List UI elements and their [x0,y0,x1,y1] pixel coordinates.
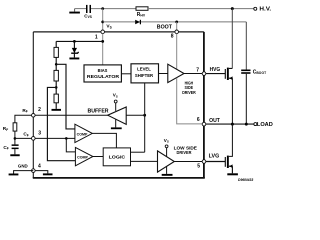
comparator COMP1 [75,124,92,142]
svg-text:VS: VS [164,138,169,144]
wire logic to low side driver [131,160,158,162]
node junction zener [73,40,76,43]
wire high side driver to pin 7 [184,73,202,75]
svg-text:LVG: LVG [209,154,220,160]
svg-text:REGULATOR: REGULATOR [87,74,120,79]
svg-text:4: 4 [38,163,41,169]
wire level shifter to high side driver [159,73,168,75]
svg-text:HVG: HVG [210,67,221,73]
svg-text:7: 7 [196,67,199,73]
node junction CVS/Vs [101,7,104,10]
wire boot rail [103,21,247,23]
svg-text:CF: CF [3,145,8,151]
capacitor CF [3,144,18,150]
svg-text:DRIVER: DRIVER [177,150,193,155]
pin 5 LVG [197,154,219,170]
svg-text:CVS: CVS [84,13,92,19]
capacitor CVS [84,5,92,19]
wire H.V. down to Q1 drain [231,9,233,69]
svg-text:LOAD: LOAD [257,122,273,128]
pin 8 BOOT [171,30,179,39]
wire R2 to tap2 [55,81,57,94]
svg-text:COMP: COMP [77,133,88,137]
node tap2 [55,86,58,89]
wire pin3 to comparators [35,137,75,139]
wire tap1 to comparator COMP1 input [56,64,75,129]
svg-text:BUFFER: BUFFER [88,109,109,115]
wire high side driver return to pin 6 [177,78,202,124]
svg-text:RF: RF [3,126,8,132]
terminal H.V. [254,7,272,13]
node junction pin3 branch [65,137,68,140]
transistor Q1 high side MOSFET [225,68,232,80]
ground pin4 right [43,173,53,175]
capacitor CBOOT [241,69,266,75]
wire pin3 branch to COMP2 [66,138,75,152]
wire pin2 to external RF [15,115,32,123]
wire Vs rail top [91,8,136,10]
svg-text:1: 1 [95,34,98,40]
wire R3 to ground [55,103,57,109]
resistor RHV [136,7,148,18]
transistor Q2 low side MOSFET [225,156,232,168]
svg-text:BIAS: BIAS [98,68,108,73]
wire Q1 source to OUT rail [231,78,233,124]
node junction boot rail [101,21,104,24]
wire R1 to tap1 [55,57,57,70]
svg-text:H.V.: H.V. [259,7,272,13]
svg-text:RHV: RHV [137,12,146,18]
node junction boot pin [175,21,178,24]
wire pin1 to bias regulator [102,34,104,65]
ground pin4 left [9,174,19,176]
wire boot junction to pin 8 [176,22,178,30]
wire OUT rail [206,123,254,125]
svg-text:GND: GND [18,163,28,168]
wire Q2 source to ground [231,166,233,173]
amplifier high side driver [168,64,184,82]
svg-text:CBOOT: CBOOT [253,69,267,75]
wire COMP2 to logic [93,156,103,158]
wire pin8 to high side driver supply [176,34,178,70]
node junction internal Vs rail [101,40,104,43]
pin 7 HVG [196,67,220,75]
svg-text:SHIFTER: SHIFTER [135,73,154,78]
bias regulator block [84,65,121,82]
node junction OUT/CBOOT [245,123,248,126]
wire pin3 to node CF [15,137,32,139]
ground Q2 [227,173,238,175]
label LOW SIDE DRIVER [174,145,197,155]
svg-text:5: 5 [197,164,200,170]
wire buffer to level shifter net [126,114,145,116]
svg-text:8: 8 [171,33,174,39]
ground divider [52,109,62,111]
wire CF to ground [14,149,16,154]
svg-text:CF: CF [23,132,28,138]
resistor divider R3 [54,94,58,103]
svg-text:LOGIC: LOGIC [109,154,126,160]
resistor divider R2 [54,70,58,81]
wire RHV to H.V. [148,8,254,10]
pin 4 GND [18,163,41,172]
wire internal Vs rail [56,41,102,47]
wire COMP1 to logic [92,133,116,148]
amplifier low side driver [158,151,175,172]
svg-text:VS: VS [106,24,111,30]
wire boot to CBOOT [245,22,247,70]
node junction OUT/Q2 [231,123,234,126]
pin 1 Vs [95,30,105,40]
resistor RF [3,123,17,132]
ground low side driver [162,166,173,175]
logic block [103,148,130,166]
svg-text:3: 3 [38,130,41,136]
wire pin4 right to ground [35,171,48,174]
svg-text:LEVEL: LEVEL [137,67,151,72]
svg-text:2: 2 [38,107,41,113]
pin 6 OUT [197,117,220,126]
wire pin4 left to ground [14,171,34,174]
resistor divider R1 [54,47,58,57]
wire CBOOT to OUT rail [245,74,247,124]
zener diode DZ [71,41,78,57]
wire low side driver to pin 5 [174,161,202,163]
svg-text:OUT: OUT [209,118,220,124]
svg-text:RF: RF [22,108,27,114]
svg-text:DRIVER: DRIVER [182,90,196,95]
wire pin5 to Q2 gate [206,161,226,163]
wire OUT to Q2 drain [229,124,233,156]
pin 2 RF [22,107,41,117]
svg-text:BOOT: BOOT [157,25,172,31]
wire pin2 to buffer [35,114,109,116]
IC U1 box [33,32,205,178]
supply Vs circle low side driver [164,138,169,157]
terminal LOAD [254,122,273,128]
node junction H.V. drain [231,7,234,10]
wire RF to node CF [14,131,16,144]
node RF/CF [14,137,17,140]
wire ground to CVS [75,8,87,10]
diode bootstrap [135,20,141,25]
op-amp buffer U2 [108,107,127,124]
ground (supply ground for CVS) [69,9,80,14]
wire pin7 to Q1 gate [206,73,226,75]
svg-text:D96IN433: D96IN433 [238,178,253,182]
node junction buffer/levelshifter [143,114,146,117]
wire Vs junction down to pin 1 [102,9,104,30]
node tap1 [55,63,58,66]
svg-text:VS: VS [113,93,118,99]
wire bias to level shifter [121,73,131,75]
svg-text:COMP: COMP [77,155,88,159]
supply Vs circle buffer [113,93,118,111]
wire logic to level shifter [131,151,145,153]
label HIGH SIDE DRIVER [182,80,196,95]
pin 3 CF [23,130,41,140]
comparator COMP2 [75,147,93,165]
ground CF [10,154,19,156]
svg-text:6: 6 [197,117,200,123]
ground zener [69,58,79,60]
wire tap2 to comparator COMP2 input [47,87,75,160]
wire level shifter vertical [144,83,146,152]
ground buffer [111,119,122,129]
level shifter block [131,64,159,83]
